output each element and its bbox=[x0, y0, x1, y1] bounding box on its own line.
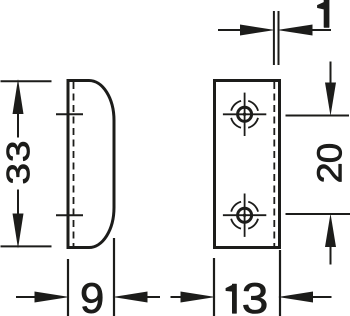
dim9 extension line right bbox=[113, 238, 115, 316]
hole H2 (bottom) bbox=[223, 194, 266, 237]
side view hidden (dashed) line bbox=[73, 82, 75, 246]
dim33 extension line bottom bbox=[1, 245, 52, 247]
dim9 arrow left bbox=[16, 292, 70, 303]
dim33 extension line top bbox=[1, 80, 52, 82]
dim33 arrow down bbox=[13, 190, 24, 249]
dim9 label "9" bbox=[82, 283, 102, 313]
side view center tick (bottom hole) bbox=[56, 214, 83, 216]
dim20 arrow down bbox=[325, 62, 336, 117]
dim20 extension line bottom bbox=[286, 213, 350, 215]
dim13 extension line right bbox=[279, 250, 281, 316]
dim9 arrow right bbox=[113, 292, 161, 303]
dim9 extension line left bbox=[67, 259, 69, 316]
dim20 arrow up bbox=[325, 214, 336, 265]
side view outline bbox=[68, 81, 114, 248]
side view center tick (top hole) bbox=[56, 113, 83, 115]
dim13 extension line left bbox=[213, 258, 215, 316]
dim33 arrow up bbox=[13, 79, 24, 138]
dim1 arrow left bbox=[218, 25, 275, 36]
front view hidden (dashed) line bbox=[273, 82, 275, 246]
dim13 arrow right bbox=[278, 292, 332, 303]
front view outline bbox=[215, 81, 280, 248]
dim1 label "1" bbox=[318, 0, 330, 27]
dim13 arrow left bbox=[171, 292, 216, 303]
dim13 label "13" bbox=[226, 284, 236, 313]
hole H1 (top) bbox=[223, 93, 266, 136]
dim20 label "20" bbox=[317, 164, 341, 181]
dim1 extension line right bbox=[278, 11, 280, 65]
dim20 extension line top bbox=[286, 115, 350, 117]
dim1 extension line left bbox=[273, 11, 275, 65]
dim1 arrow right bbox=[277, 25, 331, 36]
dim33 label "33" bbox=[7, 142, 30, 161]
